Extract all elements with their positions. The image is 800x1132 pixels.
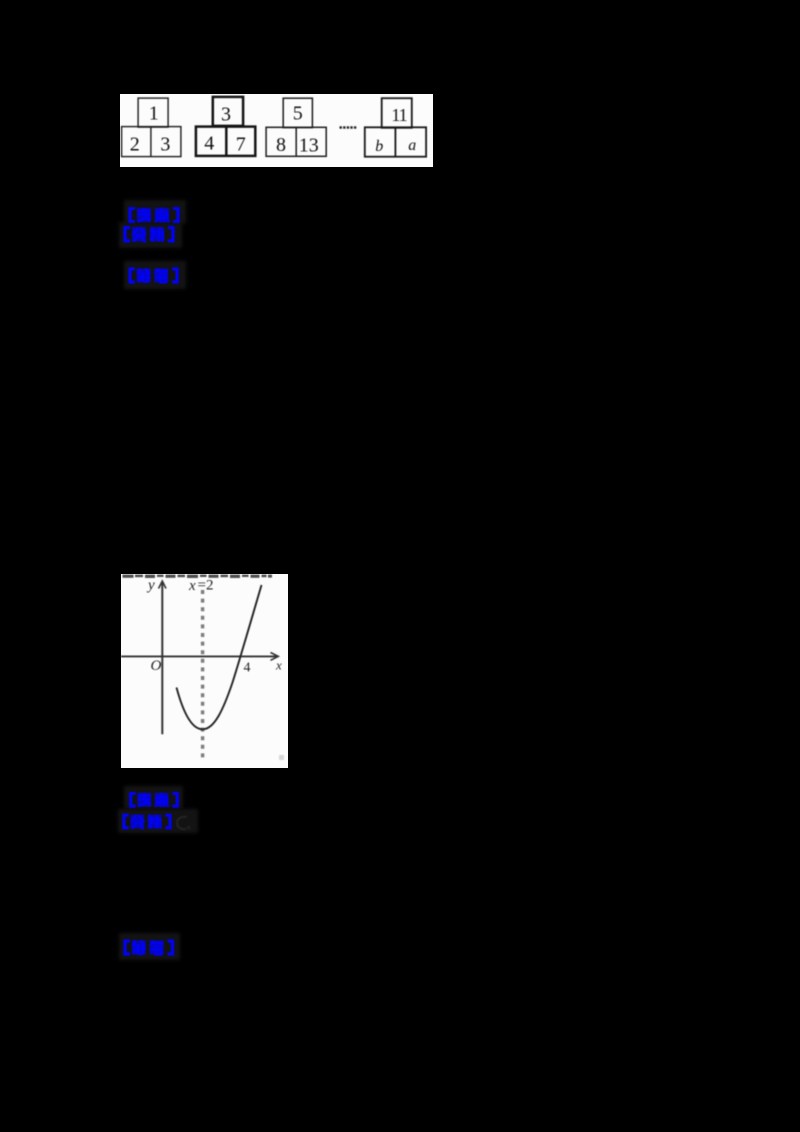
group 4 boxes — [365, 98, 426, 157]
svg-text:4: 4 — [204, 133, 214, 155]
faint artifact halos behind labels — [124, 200, 186, 224]
section 1 label fenxi — [123, 226, 175, 243]
svg-text:7: 7 — [236, 134, 246, 156]
svg-text:b: b — [375, 138, 383, 155]
group 1 numbers — [130, 103, 171, 156]
section 1 label jieda — [128, 267, 179, 284]
section 2 label kaodian — [128, 792, 180, 808]
ellipsis dots — [340, 126, 357, 128]
faint dark glyph after fenxi — [173, 814, 193, 832]
graph panel: parabola — [121, 574, 289, 768]
parabola curve — [176, 585, 261, 729]
svg-text:5: 5 — [293, 103, 303, 125]
cropped text smudge row — [122, 574, 272, 577]
group 2 boxes (bold) — [196, 97, 255, 156]
svg-text:3: 3 — [221, 104, 231, 126]
group 1 top box — [122, 98, 181, 157]
x axis — [121, 652, 278, 660]
svg-text:2: 2 — [130, 134, 140, 156]
figure panel: number boxes — [120, 94, 433, 167]
section 1 label kaodian — [128, 207, 180, 223]
group 3 numbers — [276, 103, 319, 157]
group 4 labels — [375, 105, 416, 155]
svg-text:a: a — [408, 137, 416, 154]
group 2 numbers — [204, 104, 246, 156]
svg-text:13: 13 — [299, 135, 319, 157]
y axis — [158, 581, 166, 734]
svg-text:8: 8 — [276, 134, 286, 156]
svg-text:x: x — [275, 657, 282, 672]
svg-text:1: 1 — [149, 103, 159, 125]
svg-text:4: 4 — [243, 660, 250, 675]
section 2 label jieda — [123, 939, 175, 956]
svg-text:O: O — [150, 658, 161, 674]
svg-text:3: 3 — [160, 134, 170, 156]
svg-text:11: 11 — [391, 105, 406, 125]
svg-text:x: x — [188, 577, 196, 593]
svg-text:y: y — [146, 577, 155, 593]
dashed line x=2 — [200, 590, 203, 759]
group 3 boxes — [266, 98, 326, 156]
axis labels — [146, 577, 282, 675]
svg-text:=2: =2 — [197, 577, 213, 593]
section 2 label fenxi — [122, 813, 172, 830]
